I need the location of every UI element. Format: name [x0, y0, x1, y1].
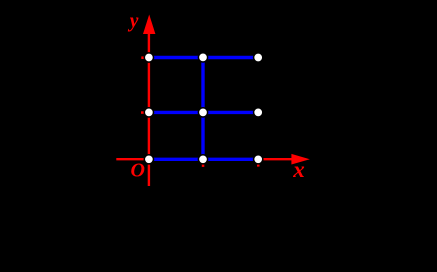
svg-text:O: O — [131, 160, 145, 182]
svg-text:x: x — [292, 157, 305, 182]
svg-text:y: y — [128, 11, 139, 32]
